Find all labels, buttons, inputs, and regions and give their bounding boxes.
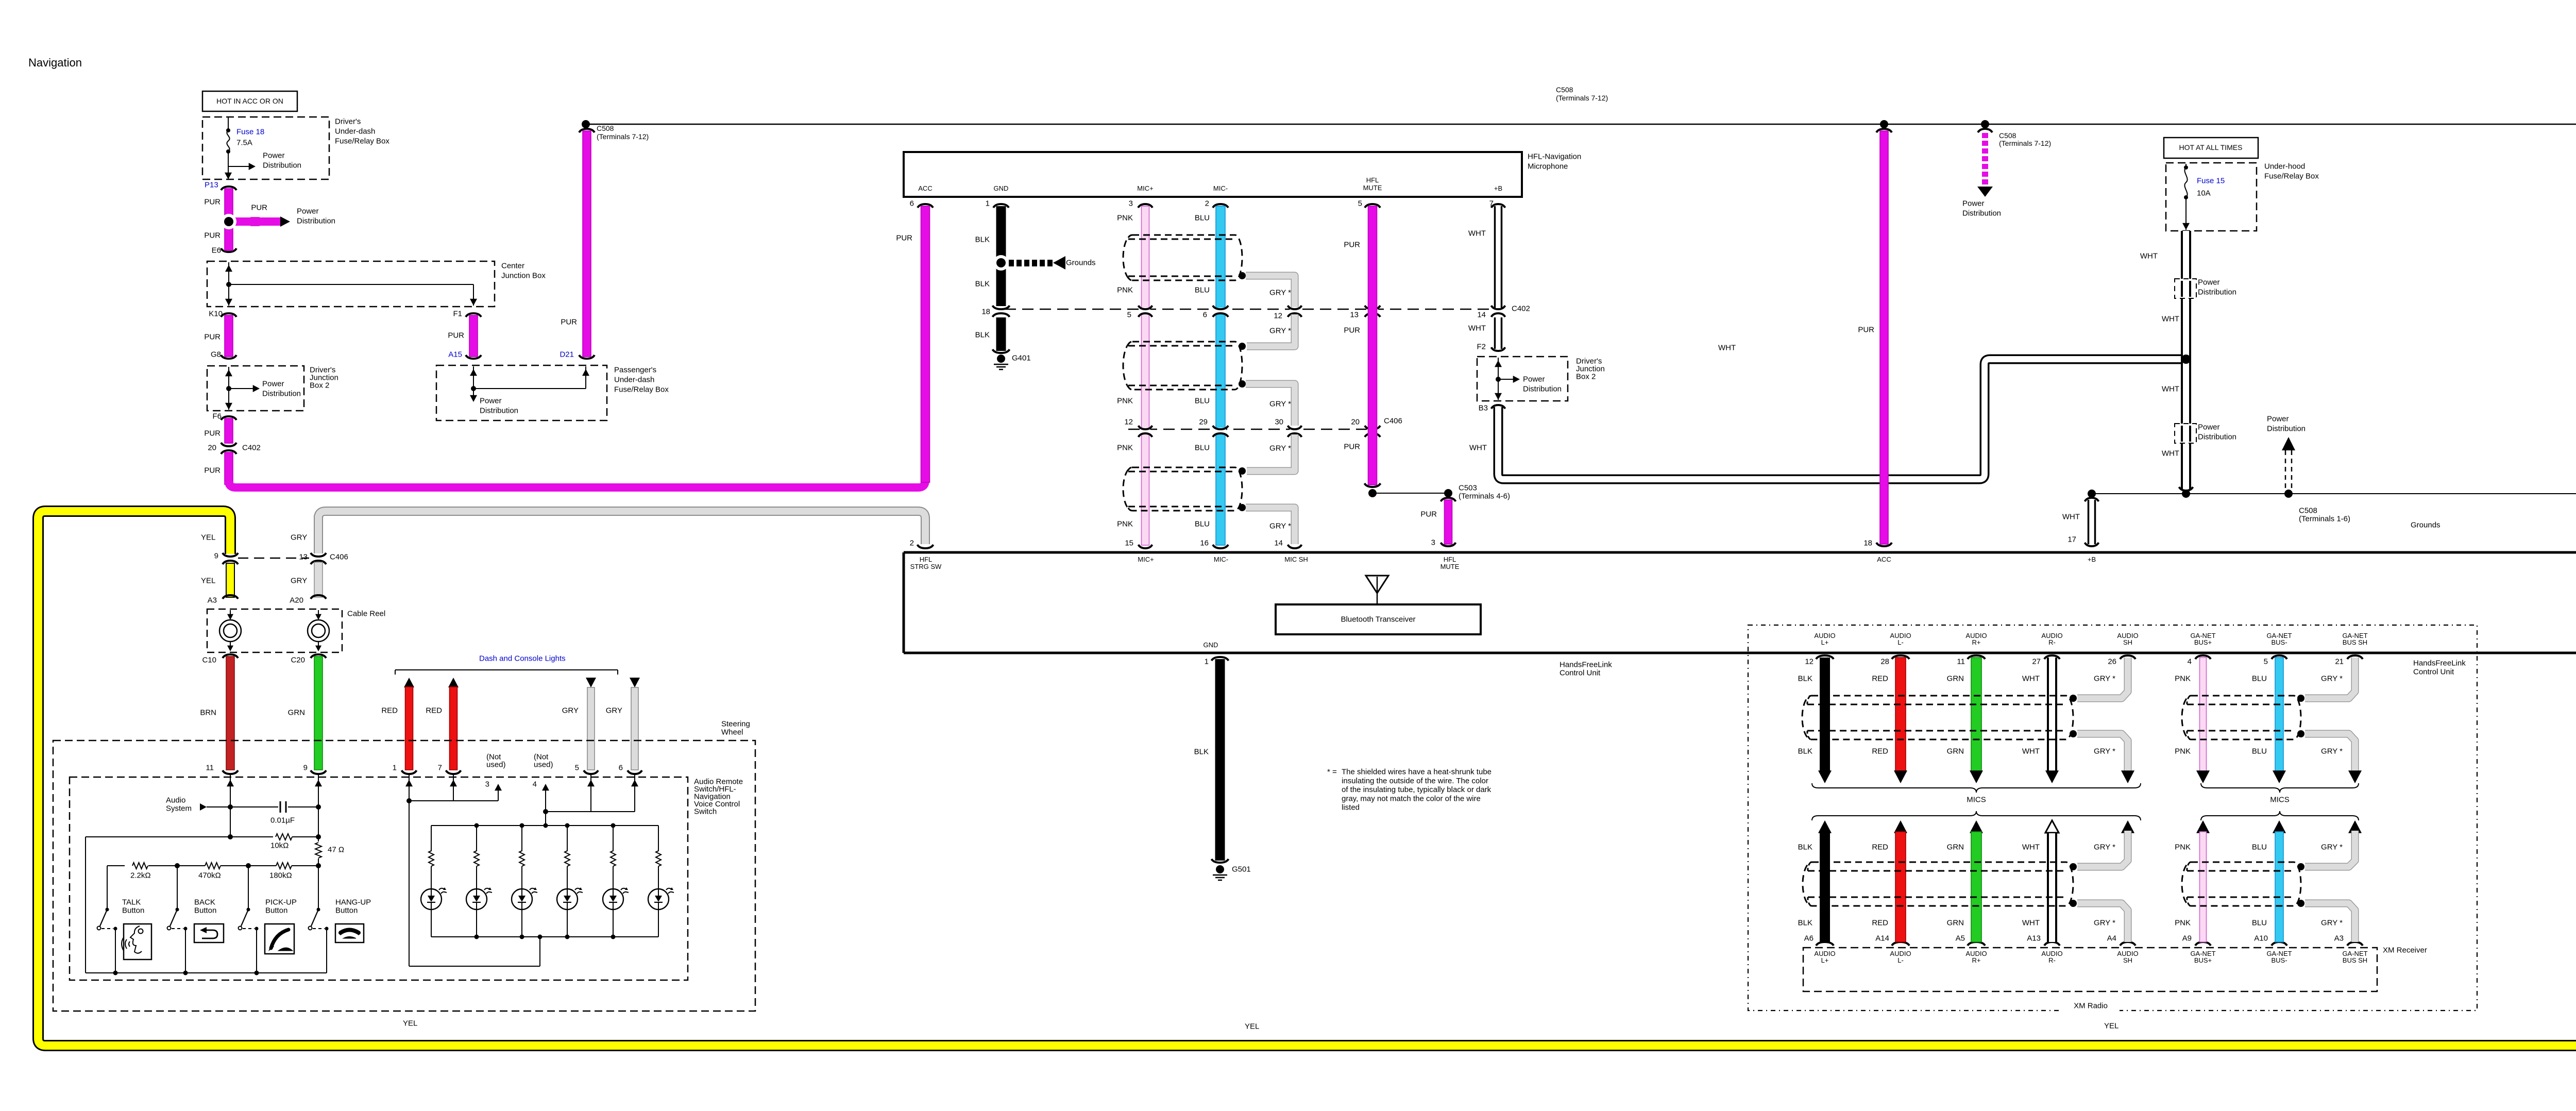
svg-text:(Terminals 1-6): (Terminals 1-6)	[2299, 515, 2350, 524]
svg-text:RED: RED	[1872, 675, 1888, 683]
junction dot + PUR branch arrow power distribution	[251, 217, 259, 226]
svg-text:12: 12	[1805, 658, 1814, 666]
svg-text:30: 30	[1275, 418, 1283, 427]
svg-text:G501: G501	[1232, 865, 1251, 874]
svg-text:GRY *: GRY *	[2321, 675, 2343, 683]
svg-text:GND: GND	[1204, 641, 1218, 649]
svg-text:5: 5	[1127, 311, 1131, 319]
svg-text:MUTE: MUTE	[1440, 563, 1460, 570]
svg-text:F6: F6	[212, 412, 222, 421]
svg-text:GRY *: GRY *	[2094, 919, 2115, 928]
svg-text:7.5A: 7.5A	[236, 139, 252, 147]
LED branch 5	[613, 826, 614, 851]
svg-text:PUR: PUR	[448, 331, 464, 340]
svg-text:WHT: WHT	[2162, 385, 2179, 394]
wire WHT mic +B pin7	[1495, 206, 1502, 308]
svg-text:PUR: PUR	[1344, 443, 1360, 451]
Passenger's Under-dash Fuse/Relay Box	[436, 365, 607, 420]
svg-text:BUS+: BUS+	[2194, 956, 2212, 964]
svg-text:YEL: YEL	[201, 533, 215, 542]
svg-text:Distribution: Distribution	[263, 161, 301, 170]
svg-text:MICS: MICS	[1967, 796, 1986, 804]
svg-text:WHT: WHT	[2140, 252, 2158, 261]
svg-text:21: 21	[2335, 658, 2344, 666]
wire BLK mic GND	[996, 206, 1006, 306]
svg-text:GRN: GRN	[1947, 747, 1964, 756]
svg-text:MIC-: MIC-	[1214, 555, 1228, 563]
svg-text:WHT: WHT	[1468, 324, 1486, 333]
svg-text:GRY: GRY	[606, 706, 622, 715]
svg-text:GRN: GRN	[1947, 675, 1964, 683]
junction grounds dot	[993, 255, 1009, 271]
svg-text:F1: F1	[453, 310, 462, 318]
svg-text:27: 27	[2032, 658, 2041, 666]
svg-text:HOT AT ALL TIMES: HOT AT ALL TIMES	[2179, 143, 2243, 151]
svg-text:GRY *: GRY *	[2094, 843, 2115, 852]
svg-text:(Terminals 7-12): (Terminals 7-12)	[1556, 94, 1608, 102]
svg-text:A3: A3	[208, 596, 217, 605]
svg-text:2: 2	[1205, 199, 1209, 208]
junction dot to C503	[1368, 489, 1377, 497]
svg-text:SH: SH	[2123, 638, 2132, 646]
svg-text:HANG-UP: HANG-UP	[335, 898, 371, 907]
gray elbow shield2 to GRY 30	[1246, 384, 1295, 426]
svg-text:PUR: PUR	[251, 204, 267, 212]
Under-hood Fuse/Relay Box	[2166, 163, 2257, 231]
svg-text:BLK: BLK	[1798, 747, 1812, 756]
wire BLK to G401	[996, 317, 1006, 351]
svg-text:4: 4	[2188, 658, 2192, 666]
wire PUR C508-D21	[579, 129, 595, 132]
svg-text:Power: Power	[2267, 415, 2289, 424]
svg-text:C508: C508	[597, 124, 614, 132]
svg-text:BLU: BLU	[2252, 675, 2267, 683]
svg-text:Control Unit: Control Unit	[1560, 669, 1601, 678]
svg-text:BUS+: BUS+	[2194, 638, 2212, 646]
wire BLU mic MIC- pin2	[1216, 206, 1225, 545]
svg-text:A20: A20	[290, 596, 303, 605]
wire PUR below C402 to ACC bus	[225, 452, 233, 484]
svg-text:BLK: BLK	[1798, 675, 1812, 683]
svg-text:C402: C402	[242, 444, 261, 452]
svg-text:used): used)	[534, 761, 553, 769]
connector crossings at C402: pins 5 6 12 13 14	[1141, 308, 1150, 314]
switch TALK	[107, 866, 108, 910]
svg-text:C508: C508	[2299, 507, 2317, 515]
svg-text:BLU: BLU	[1195, 214, 1210, 223]
svg-text:GRY: GRY	[291, 533, 307, 542]
svg-text:PICK-UP: PICK-UP	[265, 898, 297, 907]
svg-text:GRN: GRN	[1947, 919, 1964, 928]
shield tube 3 mic	[1123, 467, 1242, 511]
svg-text:C508: C508	[1556, 86, 1573, 94]
svg-text:PUR: PUR	[1344, 241, 1360, 249]
Driver's Under-dash Fuse/Relay Box	[202, 117, 329, 179]
svg-text:C406: C406	[1384, 417, 1402, 426]
svg-text:6: 6	[619, 764, 623, 772]
svg-text:BLK: BLK	[975, 280, 990, 289]
svg-text:YEL: YEL	[201, 577, 215, 585]
svg-text:BLK: BLK	[975, 331, 990, 340]
svg-text:2.2kΩ: 2.2kΩ	[130, 871, 151, 880]
svg-text:HFL: HFL	[920, 555, 933, 563]
svg-text:BACK: BACK	[194, 898, 215, 907]
svg-text:Distribution: Distribution	[297, 217, 335, 226]
power distribution stub 2	[2175, 424, 2196, 443]
svg-text:Power: Power	[297, 207, 319, 216]
svg-text:ACC: ACC	[918, 184, 932, 192]
svg-text:20: 20	[208, 444, 216, 452]
svg-text:GRY *: GRY *	[2321, 843, 2343, 852]
svg-text:Cable Reel: Cable Reel	[347, 610, 385, 618]
svg-text:A4: A4	[2107, 934, 2116, 943]
svg-text:GRY *: GRY *	[1269, 327, 1291, 335]
LED branch 2	[476, 826, 477, 851]
svg-text:MUTE: MUTE	[1363, 184, 1382, 192]
Center Junction Box	[207, 261, 495, 307]
svg-text:3: 3	[485, 780, 489, 789]
svg-text:Driver's: Driver's	[335, 117, 361, 126]
svg-text:WHT: WHT	[2022, 675, 2040, 683]
brace MICS upper-left	[1812, 783, 2141, 793]
svg-text:C406: C406	[330, 553, 348, 562]
svg-text:Passenger's: Passenger's	[614, 366, 656, 375]
cable reel coil right	[318, 610, 319, 619]
wire PUR mic ACC pin6	[921, 206, 930, 482]
svg-text:18: 18	[981, 308, 990, 316]
svg-text:listed: listed	[1342, 803, 1360, 812]
wire GRY light 5	[586, 678, 596, 687]
svg-text:R+: R+	[1972, 956, 1981, 964]
svg-text:R-: R-	[2048, 638, 2056, 646]
shield tube upper right pnk-blu	[2182, 696, 2301, 739]
svg-text:6: 6	[910, 199, 914, 208]
icon PICK-UP button	[265, 924, 294, 954]
wire WHT pin14 to F2	[1495, 317, 1502, 349]
svg-text:Fuse 15: Fuse 15	[2197, 177, 2225, 186]
svg-text:0.01µF: 0.01µF	[270, 816, 295, 825]
switch BACK	[177, 866, 178, 910]
LED branch 3	[521, 826, 522, 851]
connector pin 18 GND at C402	[995, 308, 1008, 314]
svg-text:9: 9	[214, 552, 218, 561]
svg-text:XM Receiver: XM Receiver	[2383, 946, 2427, 955]
grounds dashed arrow	[1009, 260, 1014, 266]
box Bluetooth Transceiver	[1276, 604, 1481, 634]
svg-text:180kΩ: 180kΩ	[269, 871, 292, 880]
svg-text:Distribution: Distribution	[2198, 288, 2236, 297]
LED rails	[431, 825, 658, 826]
wire PUR F6 to C402	[221, 416, 236, 420]
svg-text:1: 1	[393, 764, 397, 772]
gray elbow shield3 to MIC SH pin14	[1246, 508, 1295, 544]
wire PUR P13-E6	[221, 187, 236, 190]
wire PUR F1-A15	[466, 313, 481, 317]
svg-text:(Terminals 7-12): (Terminals 7-12)	[1999, 139, 2051, 147]
svg-text:Power: Power	[480, 397, 502, 406]
svg-text:HOT IN ACC OR ON: HOT IN ACC OR ON	[216, 97, 283, 105]
svg-text:Navigation: Navigation	[28, 56, 82, 69]
wire PNK mic MIC+ pin3	[1142, 206, 1149, 545]
wire PUR ACC long	[1876, 129, 1892, 132]
svg-text:GND: GND	[994, 184, 1009, 192]
ground G501 center	[1216, 865, 1224, 873]
svg-text:MIC+: MIC+	[1137, 184, 1153, 192]
power distribution stub 1	[2175, 279, 2196, 298]
svg-text:GRY *: GRY *	[2321, 747, 2343, 756]
svg-text:L-: L-	[1897, 956, 1904, 964]
wire BRN C10-11	[226, 656, 234, 770]
svg-text:BUS SH: BUS SH	[2343, 956, 2367, 964]
svg-text:PNK: PNK	[2175, 747, 2191, 756]
wire GRY elbows col 7	[2305, 658, 2355, 698]
svg-text:20: 20	[1351, 418, 1360, 427]
box HOT IN ACC OR ON	[202, 91, 297, 111]
svg-text:Distribution: Distribution	[262, 390, 301, 398]
svg-text:GRY *: GRY *	[2094, 675, 2115, 683]
wire PUR HFL MUTE pin5	[1368, 206, 1377, 485]
svg-text:ACC: ACC	[1877, 555, 1891, 563]
junction dot ACC wire	[1880, 120, 1888, 128]
svg-text:Audio: Audio	[166, 796, 185, 805]
svg-text:WHT: WHT	[1469, 444, 1487, 452]
svg-text:BLK: BLK	[1798, 843, 1812, 852]
svg-text:BLU: BLU	[1195, 397, 1210, 406]
svg-text:BUS-: BUS-	[2271, 638, 2287, 646]
wire GRY elbows col 4	[2077, 658, 2128, 698]
svg-text:2: 2	[910, 539, 914, 548]
svg-text:PNK: PNK	[1117, 214, 1133, 223]
brace MICS upper-right	[2201, 783, 2359, 793]
wire GRY light 6	[630, 678, 640, 687]
svg-text:15: 15	[1125, 539, 1133, 548]
shield tube 1 mic	[1123, 235, 1242, 280]
shield tube upper left	[1802, 696, 2073, 739]
svg-text:A15: A15	[448, 350, 462, 359]
svg-text:GRY *: GRY *	[2321, 919, 2343, 928]
wire to row1	[230, 807, 231, 837]
svg-text:E6: E6	[212, 246, 221, 255]
svg-text:GRY *: GRY *	[1269, 444, 1291, 453]
svg-text:WHT: WHT	[2022, 747, 2040, 756]
svg-text:PUR: PUR	[204, 333, 221, 342]
svg-text:10kΩ: 10kΩ	[270, 841, 289, 850]
svg-text:Distribution: Distribution	[480, 407, 518, 415]
svg-text:GRY: GRY	[562, 706, 579, 715]
svg-text:WHT: WHT	[1718, 344, 1736, 352]
box HOT AT ALL TIMES	[2164, 138, 2258, 158]
svg-text:PNK: PNK	[1117, 286, 1133, 295]
svg-text:System: System	[166, 804, 192, 813]
dashed connector line C402	[1005, 309, 1494, 310]
svg-text:BLU: BLU	[2252, 843, 2267, 852]
entry arrows	[230, 775, 231, 788]
net line C508 terminals 7-12 top	[586, 124, 2576, 125]
svg-text:C503: C503	[1459, 484, 1477, 493]
svg-text:Power: Power	[2198, 423, 2220, 432]
svg-text:A6: A6	[1804, 934, 1814, 943]
svg-text:A10: A10	[2254, 934, 2268, 943]
svg-text:PNK: PNK	[1117, 444, 1133, 452]
svg-text:RED: RED	[1872, 843, 1888, 852]
svg-text:10A: 10A	[2197, 189, 2211, 198]
svg-text:F2: F2	[1477, 343, 1486, 351]
svg-text:4: 4	[533, 780, 537, 789]
svg-text:Switch: Switch	[694, 807, 717, 816]
svg-text:Power: Power	[1523, 375, 1545, 384]
connector C508 terminals 7-12 dot left	[582, 120, 590, 128]
dashed connector line C406	[1128, 429, 1370, 430]
wire PUR K10-G8	[221, 313, 236, 317]
switch bottom rail	[86, 972, 327, 973]
svg-text:HandsFreeLink: HandsFreeLink	[1560, 661, 1612, 669]
svg-text:Bluetooth Transceiver: Bluetooth Transceiver	[1341, 615, 1415, 624]
svg-text:Fuse/Relay Box: Fuse/Relay Box	[335, 137, 389, 146]
svg-text:D21: D21	[560, 350, 574, 359]
svg-text:BLK: BLK	[975, 235, 990, 244]
capacitor 0.01uF	[280, 801, 281, 813]
box Cable Reel	[207, 609, 342, 652]
svg-text:RED: RED	[1872, 919, 1888, 928]
svg-text:PUR: PUR	[204, 198, 221, 207]
svg-text:5: 5	[2264, 658, 2268, 666]
svg-text:HFL-Navigation: HFL-Navigation	[1528, 153, 1581, 161]
svg-text:YEL: YEL	[1245, 1022, 1259, 1031]
svg-text:Power: Power	[2198, 278, 2220, 287]
LED branch 6	[658, 826, 659, 851]
svg-text:XM Radio: XM Radio	[2074, 1002, 2108, 1011]
svg-text:MIC+: MIC+	[1138, 555, 1154, 563]
svg-text:WHT: WHT	[2022, 919, 2040, 928]
svg-text:Fuse/Relay Box: Fuse/Relay Box	[614, 385, 669, 394]
svg-text:PUR: PUR	[1420, 510, 1437, 519]
svg-text:A14: A14	[1875, 934, 1889, 943]
svg-text:13: 13	[299, 553, 308, 562]
svg-text:insulating the outside of the: insulating the outside of the wire. The …	[1342, 777, 1488, 785]
fuse F15 Fuse 15 10A	[2185, 164, 2187, 167]
svg-text:Distribution: Distribution	[2267, 425, 2306, 433]
HFL pins 15 16 14 3 labels	[1139, 545, 1153, 548]
svg-text:GRY *: GRY *	[1269, 522, 1291, 531]
svg-text:The shielded wires have a heat: The shielded wires have a heat-shrunk tu…	[1342, 768, 1492, 777]
svg-text:C20: C20	[291, 656, 305, 665]
svg-text:GRY *: GRY *	[2094, 747, 2115, 756]
switch PICK-UP	[248, 866, 249, 910]
svg-text:Distribution: Distribution	[1962, 209, 2001, 218]
svg-text:C402: C402	[1512, 305, 1530, 313]
svg-text:Steering: Steering	[721, 720, 750, 729]
svg-text:Power: Power	[262, 380, 284, 389]
svg-text:BLK: BLK	[1798, 919, 1812, 928]
wire PUR bus to HFL-Navigation Microphone ACC	[229, 208, 925, 487]
svg-text:of the insulating tube, typica: of the insulating tube, typically black …	[1342, 785, 1492, 794]
svg-text:YEL: YEL	[2104, 1022, 2119, 1031]
svg-text:SH: SH	[2123, 956, 2132, 964]
svg-text:A9: A9	[2182, 934, 2192, 943]
svg-text:Button: Button	[335, 906, 358, 915]
svg-text:C10: C10	[202, 656, 216, 665]
HFL pin 2 HFL STRG SW	[918, 545, 934, 548]
svg-text:PUR: PUR	[204, 231, 221, 240]
icon BACK button	[194, 924, 224, 942]
svg-text:BRN: BRN	[200, 709, 216, 717]
svg-text:A13: A13	[2027, 934, 2041, 943]
svg-text:Distribution: Distribution	[1523, 385, 1562, 394]
svg-text:HFL: HFL	[1444, 555, 1456, 563]
svg-text:Grounds: Grounds	[1066, 259, 1096, 267]
svg-text:RED: RED	[426, 706, 442, 715]
svg-text:1: 1	[986, 199, 990, 208]
svg-text:PUR: PUR	[1344, 326, 1360, 335]
cable reel coil left	[230, 610, 231, 619]
connector crossings at C406: pins 12 29 30 20	[1141, 428, 1150, 434]
svg-text:Power: Power	[263, 151, 285, 160]
svg-text:WHT: WHT	[2162, 449, 2179, 458]
svg-text:Box 2: Box 2	[310, 381, 329, 390]
svg-text:MIC SH: MIC SH	[1284, 555, 1308, 563]
svg-text:11: 11	[1957, 658, 1965, 666]
svg-text:G8: G8	[211, 350, 221, 359]
svg-text:MICS: MICS	[2270, 796, 2290, 804]
svg-text:A3: A3	[2334, 934, 2344, 943]
shield tube lower left	[1803, 862, 2073, 906]
Driver's Junction Box 2	[207, 366, 304, 411]
svg-text:Microphone: Microphone	[1528, 162, 1568, 171]
svg-text:5: 5	[575, 764, 579, 772]
svg-text:GRY: GRY	[291, 577, 307, 585]
LED supply path	[406, 798, 412, 803]
svg-text:Center: Center	[501, 262, 524, 271]
svg-text:WHT: WHT	[2022, 843, 2040, 852]
svg-text:Fuse/Relay Box: Fuse/Relay Box	[2264, 172, 2319, 181]
svg-text:(Terminals 7-12): (Terminals 7-12)	[597, 132, 649, 141]
svg-text:28: 28	[1880, 658, 1889, 666]
svg-text:18: 18	[1863, 539, 1872, 548]
LED branch 1	[431, 826, 432, 851]
svg-text:BLK: BLK	[1194, 748, 1209, 756]
svg-text:BLU: BLU	[2252, 747, 2267, 756]
wire WHT fuse15 down	[2182, 231, 2190, 491]
svg-text:L+: L+	[1821, 956, 1829, 964]
svg-text:3: 3	[1129, 199, 1133, 208]
svg-text:BLU: BLU	[1195, 520, 1210, 529]
DJB2r internal	[1498, 358, 1499, 400]
grounds net line	[2092, 493, 2576, 494]
svg-text:13: 13	[1350, 311, 1359, 319]
svg-text:Grounds: Grounds	[2411, 521, 2441, 530]
svg-text:BLU: BLU	[2252, 919, 2267, 928]
svg-text:Control Unit: Control Unit	[2413, 668, 2454, 677]
svg-text:26: 26	[2108, 658, 2116, 666]
svg-text:+B: +B	[2088, 555, 2096, 563]
svg-text:G401: G401	[1012, 354, 1031, 363]
shield tube lower right pnk-blu	[2182, 862, 2301, 906]
svg-text:Fuse 18: Fuse 18	[236, 128, 264, 137]
svg-text:17: 17	[2067, 535, 2076, 544]
svg-text:PNK: PNK	[1117, 520, 1133, 529]
svg-text:PNK: PNK	[2175, 675, 2191, 683]
svg-text:P13: P13	[205, 181, 218, 190]
LED branch 4	[567, 826, 568, 851]
svg-text:HandsFreeLink: HandsFreeLink	[2413, 659, 2466, 668]
svg-text:GRN: GRN	[1947, 843, 1964, 852]
brace MICS lower-left	[1812, 811, 2141, 820]
svg-text:BUS SH: BUS SH	[2343, 638, 2367, 646]
svg-text:Junction Box: Junction Box	[501, 272, 546, 280]
svg-text:WHT: WHT	[2062, 513, 2080, 521]
svg-text:9: 9	[303, 764, 308, 772]
svg-text:YEL: YEL	[403, 1019, 417, 1028]
